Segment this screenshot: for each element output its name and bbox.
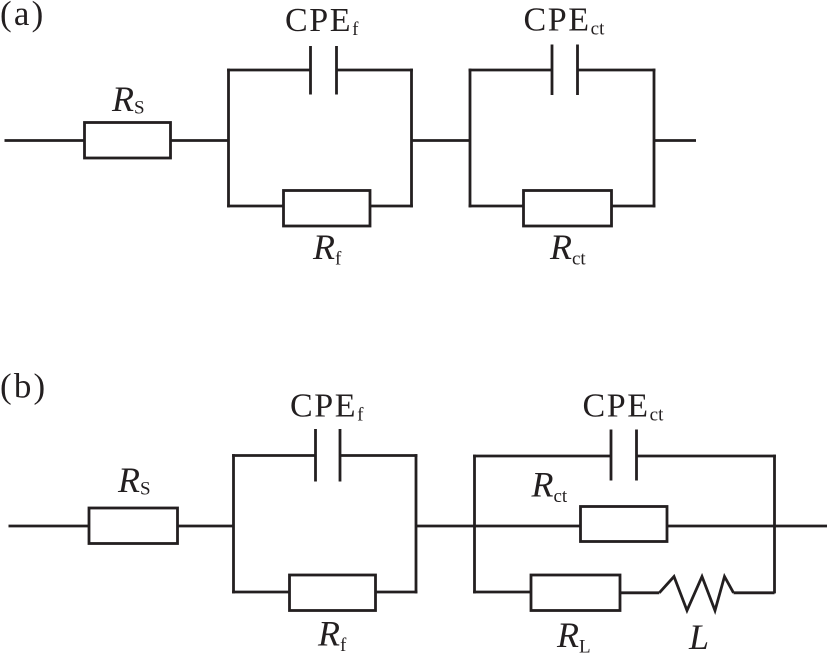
svg-text:Rct: Rct bbox=[531, 464, 568, 507]
wire block1 bottom right segment (a) bbox=[370, 205, 413, 208]
wire input lead (b) bbox=[9, 525, 90, 528]
wire block2 top right segment (b) bbox=[637, 455, 776, 458]
wire block1 top right segment (b) bbox=[340, 454, 417, 457]
wire block1 top right segment (a) bbox=[337, 69, 413, 72]
svg-text:(a): (a) bbox=[0, 0, 45, 33]
capacitor CPE_f (a) bbox=[311, 46, 337, 95]
resistor Rct (a) bbox=[524, 191, 612, 227]
wire block2 left vertical (a) bbox=[469, 69, 472, 208]
wire block2 bottom left segment (a) bbox=[469, 205, 524, 208]
wire block1 top left segment (b) bbox=[232, 454, 315, 457]
wire inductor to right vertical (b) bbox=[734, 591, 775, 594]
wire block1 to block2 (a) bbox=[412, 139, 471, 142]
capacitor CPE_f (b) bbox=[316, 429, 341, 482]
wire RL to inductor (b) bbox=[620, 591, 659, 594]
wire block2 bottom right segment (a) bbox=[612, 205, 656, 208]
wire output lead (a) bbox=[654, 139, 696, 142]
wire block2 bottom left segment (b) bbox=[473, 591, 531, 594]
wire block1 right vertical (b) bbox=[415, 454, 418, 593]
wire block2 top left segment (b) bbox=[473, 455, 611, 458]
wire block1 bottom left segment (a) bbox=[227, 205, 283, 208]
wire middle branch left (b) bbox=[475, 525, 581, 528]
wire RS to block1 (a) bbox=[171, 139, 229, 142]
wire block1 right vertical (a) bbox=[410, 69, 413, 208]
wire block2 left vertical (b) bbox=[473, 455, 476, 594]
resistor RS (b) bbox=[89, 508, 178, 544]
svg-text:RS: RS bbox=[111, 79, 145, 119]
capacitor CPE_ct (a) bbox=[552, 45, 578, 96]
wire block2 right vertical (b) bbox=[773, 455, 776, 594]
wire block1 left vertical (a) bbox=[227, 69, 230, 208]
wire RS to block1 (b) bbox=[178, 525, 234, 528]
resistor Rct (b) bbox=[581, 507, 668, 542]
wire block2 top left segment (a) bbox=[469, 69, 552, 72]
resistor Rf (b) bbox=[290, 575, 376, 611]
capacitor CPE_ct (b) bbox=[611, 430, 637, 481]
svg-text:Rf: Rf bbox=[317, 614, 347, 656]
wire middle branch right and output lead (b) bbox=[667, 525, 827, 528]
svg-text:Rf: Rf bbox=[312, 227, 342, 270]
svg-text:(b): (b) bbox=[0, 367, 47, 406]
resistor Rf (a) bbox=[284, 191, 371, 227]
svg-text:CPEf: CPEf bbox=[285, 2, 359, 40]
inductor L (b) bbox=[659, 577, 733, 611]
wire block1 bottom right segment (b) bbox=[376, 591, 418, 594]
wire block1 to block2 (b) bbox=[416, 525, 475, 528]
resistor RS (a) bbox=[85, 123, 171, 159]
svg-text:RL: RL bbox=[556, 615, 591, 655]
svg-text:CPEf: CPEf bbox=[290, 388, 364, 426]
svg-text:L: L bbox=[688, 617, 709, 655]
wire block1 left vertical (b) bbox=[232, 454, 235, 593]
wire block1 top left segment (a) bbox=[227, 69, 310, 72]
wire block2 right vertical (a) bbox=[653, 69, 656, 208]
wire input lead (a) bbox=[5, 139, 85, 142]
svg-text:Rct: Rct bbox=[549, 227, 586, 270]
resistor RL (b) bbox=[531, 575, 620, 611]
svg-text:CPEct: CPEct bbox=[524, 2, 606, 40]
wire block2 top right segment (a) bbox=[578, 69, 656, 72]
svg-text:RS: RS bbox=[117, 460, 151, 500]
wire block1 bottom left segment (b) bbox=[232, 591, 289, 594]
svg-text:CPEct: CPEct bbox=[583, 388, 665, 426]
